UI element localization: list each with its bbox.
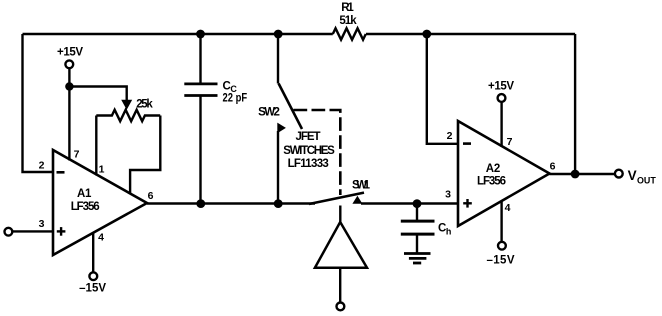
wire SW1 to Ch junction and A2 pin 3 <box>361 202 458 204</box>
minus sign A2 pin2 <box>463 142 471 145</box>
wire pot right lead to A1 pin 5 <box>130 116 160 194</box>
op-amp A1 triangle <box>53 150 147 255</box>
plus sign A2 pin3 <box>463 202 472 204</box>
switch SW2 arrow contact <box>277 123 286 134</box>
svg-text:+15V: +15V <box>57 46 83 58</box>
junction dot A2 output <box>571 170 580 179</box>
wire A1 pin 7 from +15V <box>68 68 70 160</box>
svg-text:2: 2 <box>447 130 453 142</box>
svg-text:6: 6 <box>148 190 154 202</box>
svg-text:7: 7 <box>74 149 80 161</box>
terminal +15V A1 <box>65 60 73 68</box>
op-amp A2 triangle <box>458 121 550 226</box>
switch driver triangle <box>315 222 367 268</box>
terminal A1 pin 3 input <box>4 228 12 236</box>
wire wiper feed from +15V junction <box>70 87 127 102</box>
wire A1 pin 4 to -15V <box>92 233 94 272</box>
svg-text:7: 7 <box>507 136 513 148</box>
terminal +15V A2 <box>498 94 506 102</box>
wire A2 output <box>550 173 615 175</box>
wire top rail left segment <box>23 33 333 35</box>
svg-text:SWITCHES: SWITCHES <box>283 145 335 157</box>
svg-text:22 pF: 22 pF <box>223 92 248 104</box>
wire R1 junction down to A2 pin 2 <box>427 34 458 144</box>
wire A2 pin 7 from +15V <box>500 103 502 148</box>
switch SW2 bottom lead <box>277 131 279 204</box>
wire A1 pin 3 input <box>12 230 53 232</box>
svg-text:1: 1 <box>99 164 105 176</box>
terminal -15V A1 <box>89 272 97 280</box>
switch SW1 arrow contact <box>352 196 362 204</box>
svg-text:25k: 25k <box>136 98 153 110</box>
terminal -15V A2 <box>498 242 506 250</box>
svg-text:–15V: –15V <box>487 255 515 267</box>
ground symbol <box>404 252 431 255</box>
svg-text:–15V: –15V <box>79 283 106 295</box>
minus sign A1 pin2 <box>57 171 65 174</box>
terminal VOUT <box>615 170 623 178</box>
svg-text:SW1: SW1 <box>352 180 371 192</box>
switch SW1 blade <box>309 193 364 204</box>
wire A2 pin 4 to -15V <box>500 201 502 242</box>
svg-text:LF356: LF356 <box>71 201 100 213</box>
capacitor CC bottom lead <box>199 96 201 204</box>
resistor R1 <box>333 28 366 39</box>
svg-text:OUT: OUT <box>637 175 656 186</box>
svg-text:JFET: JFET <box>296 131 321 143</box>
wire A1 output to SW1 blade pivot <box>147 202 315 204</box>
potentiometer wiper arrowhead <box>121 100 132 110</box>
terminal driver input <box>337 303 345 311</box>
junction dot top SW2 <box>274 30 283 39</box>
svg-text:6: 6 <box>550 161 556 173</box>
switch SW2 blade <box>279 84 302 130</box>
svg-text:A2: A2 <box>486 163 501 175</box>
svg-text:A1: A1 <box>77 188 92 200</box>
svg-text:3: 3 <box>445 189 451 201</box>
capacitor Ch bottom lead <box>416 234 418 252</box>
dashed control line SW2 to SW1 <box>294 110 341 195</box>
svg-text:V: V <box>628 168 637 183</box>
switch SW2 top lead <box>277 34 279 84</box>
potentiometer 25k <box>96 110 160 121</box>
svg-text:LF356: LF356 <box>477 175 506 187</box>
capacitor CC top lead <box>199 34 201 84</box>
svg-text:LF11333: LF11333 <box>288 158 329 170</box>
svg-text:2: 2 <box>39 160 45 172</box>
junction dot SW2 bottom <box>274 199 283 208</box>
junction dot top Cc <box>196 30 205 39</box>
svg-text:4: 4 <box>98 232 104 244</box>
capacitor Ch top lead <box>416 204 418 222</box>
junction dot Ch top <box>413 199 422 208</box>
svg-text:3: 3 <box>39 218 45 230</box>
svg-text:R1: R1 <box>341 2 354 14</box>
junction dot +15V A1 <box>65 82 73 90</box>
wire pot left lead to A1 pin 1 <box>95 116 97 176</box>
capacitor CC plates <box>184 83 217 86</box>
wire switch driver apex link <box>339 206 341 223</box>
wire top rail right segment <box>366 33 575 35</box>
capacitor Ch plates <box>401 220 435 223</box>
svg-text:Ch: Ch <box>438 223 451 237</box>
wire driver input lead <box>339 268 341 302</box>
wire left feedback rail to A1 pin 2 <box>23 34 54 172</box>
svg-text:51k: 51k <box>339 15 357 27</box>
svg-text:4: 4 <box>505 202 511 214</box>
svg-text:SW2: SW2 <box>258 106 280 118</box>
junction dot Cc bottom <box>196 199 205 208</box>
svg-text:+15V: +15V <box>488 80 514 92</box>
plus sign A1 pin3 <box>57 230 66 232</box>
wire right feedback rail <box>574 34 576 174</box>
junction dot top A2 pin 2 branch <box>422 30 431 39</box>
